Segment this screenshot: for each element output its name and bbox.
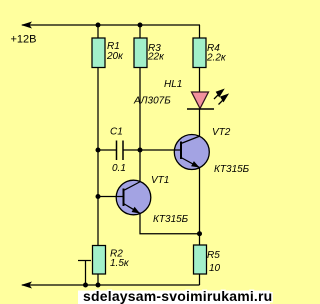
junction R2 tap / rail	[83, 283, 88, 288]
svg-text:1.5к: 1.5к	[110, 258, 130, 269]
wire bottom rail	[22, 284, 200, 286]
junction VT1 base / R1 column	[96, 194, 101, 199]
wire R5 bottom	[199, 274, 201, 285]
resistor R2 (preset)	[93, 246, 106, 275]
junction top rail / R1	[96, 23, 101, 28]
svg-text:22к: 22к	[147, 52, 165, 63]
svg-text:HL1: HL1	[164, 79, 182, 90]
svg-text:КТ315Б: КТ315Б	[214, 164, 250, 175]
transistor VT2	[174, 135, 209, 170]
LED light arrows	[214, 90, 223, 99]
wire LED cathode to VT2 collector	[199, 109, 201, 137]
wire right column down from rail	[199, 25, 201, 93]
wire R2 bottom	[97, 274, 99, 285]
svg-text:R5: R5	[207, 250, 220, 261]
resistor R1	[92, 38, 105, 68]
wire middle column R3 branch	[139, 25, 141, 182]
svg-text:sdelaysam-svoimirukami.ru: sdelaysam-svoimirukami.ru	[83, 288, 272, 304]
junction R2 bottom / rail	[96, 283, 101, 288]
LED cathode bar	[187, 108, 214, 110]
R2 wiper tap	[78, 260, 91, 262]
junction C1 right	[138, 148, 143, 153]
svg-text:C1: C1	[110, 127, 123, 138]
svg-text:+12В: +12В	[11, 34, 37, 46]
arrow bottom supply	[21, 282, 32, 289]
wire VT1 emitter elbow to R5 column	[140, 213, 200, 234]
svg-text:VT2: VT2	[212, 127, 231, 138]
transistor VT1	[116, 180, 151, 215]
svg-text:2.2к: 2.2к	[206, 53, 227, 64]
wire top rail +12V	[22, 24, 200, 26]
resistor R4	[193, 38, 206, 68]
svg-text:VT1: VT1	[151, 175, 169, 186]
junction emitters	[197, 231, 202, 236]
wire VT1 base	[98, 196, 124, 198]
svg-text:20к: 20к	[106, 51, 124, 62]
resistor R5	[194, 245, 207, 274]
svg-text:КТ315Б: КТ315Б	[153, 214, 189, 225]
wire VT2 emitter down	[199, 167, 201, 245]
svg-text:АЛ307Б: АЛ307Б	[133, 96, 171, 107]
wire left column R1 branch	[97, 25, 99, 246]
watermark sdelaysam-svoimirukami.ru	[78, 291, 270, 304]
svg-text:10: 10	[209, 263, 221, 274]
svg-text:0.1: 0.1	[112, 163, 126, 174]
arrow top supply	[21, 22, 32, 29]
junction top rail / R3	[138, 23, 143, 28]
capacitor C1	[98, 149, 116, 151]
resistor R3	[134, 38, 147, 68]
junction C1 left	[96, 148, 101, 153]
